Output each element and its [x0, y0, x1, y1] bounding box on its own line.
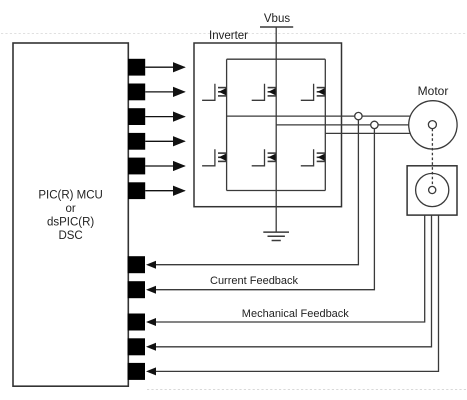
- svg-text:or: or: [65, 203, 75, 215]
- svg-text:DSC: DSC: [58, 230, 82, 242]
- svg-text:Mechanical Feedback: Mechanical Feedback: [242, 308, 350, 320]
- svg-text:Current Feedback: Current Feedback: [210, 275, 299, 287]
- svg-text:dsPIC(R): dsPIC(R): [47, 217, 94, 229]
- svg-text:Motor: Motor: [418, 84, 449, 98]
- svg-text:Vbus: Vbus: [264, 13, 290, 25]
- svg-text:PIC(R) MCU: PIC(R) MCU: [38, 190, 103, 202]
- svg-text:Inverter: Inverter: [209, 30, 248, 42]
